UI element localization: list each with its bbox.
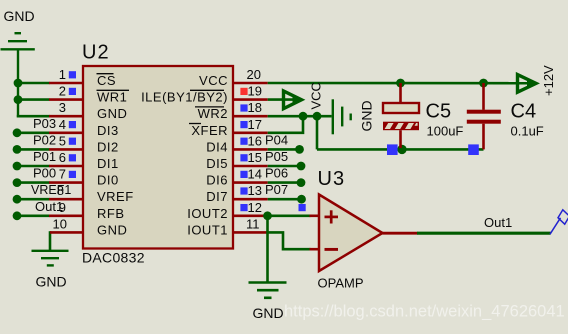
capacitor C5 bottom lead: [399, 130, 402, 148]
svg-text:WR1: WR1: [97, 90, 127, 105]
svg-text:13: 13: [248, 183, 262, 198]
svg-text:DI7: DI7: [206, 189, 228, 204]
svg-text:7: 7: [59, 167, 66, 182]
svg-text:P07: P07: [265, 182, 288, 197]
pin state square pin19 (red): [240, 88, 247, 95]
wire P07 stub with node: [268, 198, 302, 201]
svg-text:VREF: VREF: [97, 189, 134, 204]
wire node P01 to pin6: [17, 165, 50, 168]
svg-text:U2: U2: [82, 42, 110, 64]
wire node P00 to pin7: [17, 181, 50, 184]
wire pin12 IOUT2 to opamp plus input: [268, 215, 311, 218]
svg-text:20: 20: [247, 67, 261, 82]
svg-text:DI0: DI0: [97, 173, 119, 188]
svg-text:GND: GND: [359, 100, 375, 131]
svg-text:VREF1: VREF1: [31, 183, 71, 197]
wire GND3 stem: [266, 216, 269, 283]
svg-text:P02: P02: [33, 132, 56, 147]
svg-text:1: 1: [59, 67, 66, 82]
junction node at pin1 wire: [14, 79, 23, 88]
chip pin name CS with overline: [97, 73, 134, 237]
opamp U3 input stub plus: [310, 215, 320, 218]
ground symbol GND3 (below opamp): [249, 283, 287, 298]
svg-text:14: 14: [248, 167, 262, 182]
power arrow VCC: [284, 91, 302, 109]
voltage probe (blue, right edge): [550, 210, 568, 234]
ground symbol GND (top left): [1, 33, 35, 117]
pin state squares right (blue): [240, 104, 247, 211]
svg-text:DI2: DI2: [97, 139, 119, 154]
junction node A (XFER joins WR2): [299, 112, 308, 121]
svg-text:P06: P06: [265, 166, 288, 181]
wire gnd riser from node B to bottom rail: [316, 116, 319, 149]
svg-text:DI5: DI5: [206, 156, 228, 171]
wire P04 stub with node: [268, 148, 300, 151]
svg-text:P03: P03: [33, 116, 56, 131]
svg-text:P05: P05: [265, 149, 288, 164]
opamp plus sign: [325, 210, 339, 223]
capacitor C4 top plate: [467, 110, 501, 114]
svg-text:GND: GND: [97, 222, 127, 237]
svg-text:4: 4: [59, 117, 66, 132]
capacitor C4 bottom lead: [482, 124, 485, 150]
capacitor C5 top lead: [399, 83, 402, 103]
wire pin2 to gnd stem: [18, 98, 50, 101]
ground symbol GND4 (rotated, mid): [333, 99, 351, 134]
wire ground rail under C5 C4: [317, 148, 484, 151]
svg-text:3: 3: [59, 100, 66, 115]
junction node to GND3: [263, 211, 272, 220]
wire node P02 to pin5: [17, 148, 50, 151]
svg-text:12: 12: [248, 200, 262, 215]
wire state square at C4 bottom (blue): [468, 144, 479, 155]
pin numbers right: [246, 67, 262, 231]
wire node P03 to pin4: [17, 132, 50, 135]
svg-text:DI6: DI6: [206, 173, 228, 188]
svg-text:WR2: WR2: [198, 106, 228, 121]
pin state squares left (blue): [69, 71, 76, 178]
left pin stubs rows 1-10: [49, 83, 83, 232]
pin numbers left: [53, 67, 67, 231]
opamp output stub: [383, 232, 418, 235]
svg-text:19: 19: [248, 84, 262, 99]
svg-text:16: 16: [248, 133, 262, 148]
svg-text:P00: P00: [33, 166, 56, 181]
right pin stubs rows 1-10: [233, 83, 268, 232]
opamp U3 input stub minus: [310, 248, 320, 251]
svg-text:XFER: XFER: [191, 123, 228, 138]
svg-text:18: 18: [248, 100, 262, 115]
svg-text:https://blog.csdn.net/weixin_4: https://blog.csdn.net/weixin_47626041: [284, 303, 565, 321]
svg-text:2: 2: [59, 84, 66, 99]
wire opamp output Out1: [417, 232, 551, 235]
capacitor C5 bottom plate (hatched): [383, 122, 419, 131]
svg-text:11: 11: [246, 216, 260, 231]
junction node B (gnd riser): [313, 112, 322, 121]
wire pin18 WR2 to rotated ground: [268, 115, 332, 118]
wire pin17 XFER riser: [268, 116, 303, 133]
wire pin3 to gnd stem corner: [17, 115, 50, 118]
svg-text:CS: CS: [97, 73, 116, 88]
svg-text:DI4: DI4: [206, 139, 228, 154]
wire state square at C5 bottom (blue): [387, 144, 398, 155]
svg-text:+12V: +12V: [541, 65, 556, 96]
svg-text:Out1: Out1: [35, 199, 63, 214]
svg-text:IOUT2: IOUT2: [187, 206, 228, 221]
svg-text:C4: C4: [511, 101, 537, 123]
power arrow +12V: [518, 75, 537, 93]
capacitor C5 top plate: [383, 103, 419, 113]
junction node above C5: [396, 79, 405, 88]
chip U2 body DAC0832: [83, 66, 233, 249]
wire state square near P07 node (blue): [299, 204, 306, 211]
svg-text:15: 15: [248, 150, 262, 165]
svg-text:GND: GND: [97, 106, 127, 121]
svg-text:RFB: RFB: [97, 206, 125, 221]
svg-text:10: 10: [53, 216, 67, 231]
opamp minus sign: [325, 248, 339, 251]
svg-text:0.1uF: 0.1uF: [511, 124, 544, 139]
ground symbol GND2 (below chip): [32, 251, 69, 266]
junction node at pin2 wire: [14, 95, 23, 104]
svg-text:OPAMP: OPAMP: [318, 276, 364, 291]
wire node VREF1 to pin8: [17, 198, 50, 201]
svg-text:VCC: VCC: [309, 82, 324, 109]
svg-text:GND: GND: [4, 8, 35, 24]
svg-text:6: 6: [59, 150, 66, 165]
svg-text:5: 5: [59, 133, 66, 148]
svg-text:Out1: Out1: [484, 215, 512, 230]
svg-text:DAC0832: DAC0832: [82, 250, 145, 266]
svg-text:U3: U3: [318, 168, 346, 190]
junction node at C5 bottom: [397, 145, 406, 154]
wire pin10 to ground GND2: [49, 231, 52, 251]
svg-text:100uF: 100uF: [427, 124, 464, 139]
wire pin11 IOUT1 to opamp minus input: [268, 232, 311, 249]
wire pin20 VCC rail to +12V: [268, 82, 534, 85]
svg-text:ILE(BY1/BY2): ILE(BY1/BY2): [141, 90, 228, 105]
svg-text:C5: C5: [426, 101, 452, 123]
svg-text:GND: GND: [36, 274, 67, 290]
svg-text:VCC: VCC: [199, 73, 228, 88]
opamp U3 body: [319, 195, 383, 272]
svg-text:DI3: DI3: [97, 123, 119, 138]
wire pin19 to VCC arrow: [268, 98, 296, 101]
wire pin1 to gnd stem: [18, 82, 50, 85]
svg-text:IOUT1: IOUT1: [187, 222, 228, 237]
svg-text:GND: GND: [253, 305, 284, 321]
svg-text:17: 17: [248, 117, 262, 132]
svg-text:P04: P04: [265, 132, 288, 147]
svg-text:DI1: DI1: [97, 156, 119, 171]
wire node Out1 to pin9: [17, 215, 50, 218]
svg-text:P01: P01: [33, 149, 56, 164]
capacitor C4 top lead: [482, 83, 485, 110]
capacitor C4 bottom plate: [467, 120, 501, 124]
wire P06 stub with node: [268, 181, 301, 184]
junction node above C4: [479, 79, 488, 88]
wire P05 stub with node: [268, 165, 301, 168]
